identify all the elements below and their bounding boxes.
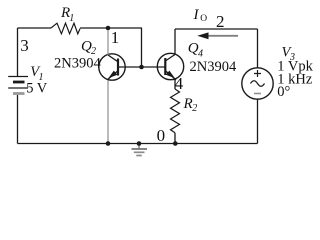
ground: [132, 144, 148, 156]
Q2 emitter diagonal: [107, 71, 118, 80]
Q4 base bar: [164, 58, 166, 75]
AC source V3: [242, 68, 273, 99]
svg-text:3: 3: [20, 36, 29, 55]
wire Q4 collector lead up: [174, 29, 176, 55]
battery V1: [8, 77, 28, 94]
Q4 circle: [157, 53, 183, 79]
junction dot ground at bottom rail: [137, 141, 142, 146]
transistor Q4 (NPN): [157, 53, 183, 80]
wire top-left horizontal from corner to R1: [18, 27, 52, 29]
svg-text:5 V: 5 V: [26, 80, 48, 96]
junction dot Q2 emitter at bottom rail: [106, 141, 111, 146]
svg-text:4: 4: [198, 48, 203, 59]
wire R2 to bottom rail: [174, 133, 176, 144]
V3 minus sign: [254, 93, 261, 95]
battery plate long 1: [8, 76, 28, 78]
svg-text:2: 2: [216, 12, 225, 31]
svg-text:I: I: [193, 7, 200, 23]
Q4 emitter arrow: [166, 71, 175, 79]
wire base rail between Q2 and Q4: [119, 66, 166, 68]
ground bar 3: [136, 155, 142, 157]
resistor R1 zigzag: [51, 23, 80, 34]
battery plate short 2: [13, 92, 25, 95]
battery plate short 1: [13, 81, 25, 84]
junction dot R2 at bottom rail: [173, 141, 178, 146]
V3 circle: [242, 68, 273, 99]
wire V3 bottom lead: [257, 99, 259, 143]
svg-text:1: 1: [111, 28, 120, 47]
V3 plus sign: [254, 70, 261, 77]
ground bar 1: [132, 148, 148, 150]
Q2 emitter arrow: [108, 71, 117, 79]
wire V3 top lead: [257, 29, 259, 68]
wire battery to bottom rail: [17, 95, 19, 144]
Q4 collector diagonal: [165, 55, 175, 62]
wire bottom rail: [18, 143, 258, 145]
ground bar 2: [134, 151, 145, 153]
svg-text:2N3904: 2N3904: [54, 56, 101, 72]
node 1 junction dot: [106, 26, 111, 31]
Q2 base bar: [117, 59, 119, 76]
wire Q4 emitter lead to R2: [174, 80, 176, 90]
Q2 collector diagonal: [108, 55, 118, 62]
wire Q2 emitter lead: [107, 80, 109, 143]
wire vertical from top wire down to base rail: [141, 28, 143, 67]
svg-text:2N3904: 2N3904: [190, 59, 237, 75]
resistor R2 zigzag: [171, 89, 180, 133]
transistor Q2 (mirrored NPN): [99, 54, 125, 80]
V3 sine wave: [251, 81, 265, 87]
ground stem: [138, 144, 140, 150]
wire R1 to node 1 corner: [80, 27, 142, 29]
svg-text:R: R: [183, 96, 193, 112]
wire Q2 collector lead: [107, 30, 109, 55]
svg-text:O: O: [200, 14, 207, 24]
wire top right horizontal: [175, 28, 258, 30]
wire left vertical down to battery: [17, 28, 19, 76]
Q2 circle: [99, 54, 125, 80]
junction dot base rail: [139, 65, 144, 70]
Q4 emitter diagonal: [166, 71, 177, 80]
current arrow IO: [197, 32, 238, 39]
svg-text:1: 1: [69, 13, 74, 24]
svg-text:0: 0: [157, 126, 166, 145]
svg-text:2: 2: [192, 103, 197, 114]
svg-text:0°: 0°: [277, 84, 290, 100]
battery plate long 2: [8, 87, 28, 89]
